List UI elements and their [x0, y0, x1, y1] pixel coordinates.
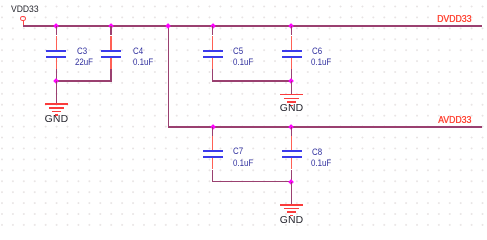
label GND bottom	[280, 216, 304, 226]
label C3	[77, 47, 87, 56]
wire GND stem bottom	[291, 182, 292, 205]
capacitor C5	[0, 0, 1, 1]
label GND left	[45, 115, 69, 125]
wire vertical trunk to AVDD33	[168, 25, 170, 127]
junction top rail at C3	[53, 23, 59, 29]
ground left	[0, 0, 1, 1]
wire AVDD33 rail	[168, 126, 482, 128]
junction AVDD rail at C8	[289, 124, 295, 130]
label GND middle	[280, 104, 304, 114]
value 0.1uF	[311, 58, 331, 67]
label VDD33	[11, 5, 39, 14]
label C6	[312, 47, 322, 56]
label C5	[233, 47, 243, 56]
junction C6 bottom	[289, 78, 295, 84]
power port VDD33	[20, 16, 26, 22]
wire C3-C4 bottom	[56, 80, 112, 82]
junction C3 bottom	[53, 78, 59, 84]
value 0.1uF	[311, 159, 331, 168]
wire C5-C6 bottom	[212, 80, 292, 82]
label C4	[133, 47, 143, 56]
wire top rail DVDD33	[23, 25, 482, 27]
capacitor C3	[0, 0, 1, 1]
value 22uF	[75, 58, 93, 67]
label C7	[233, 147, 243, 156]
ground middle	[0, 0, 1, 1]
wire GND stem middle	[291, 81, 292, 94]
junction top rail at C5	[210, 23, 216, 29]
value 0.1uF	[233, 58, 253, 67]
value 0.1uF	[233, 159, 253, 168]
capacitor C4	[0, 0, 1, 1]
capacitor C7	[0, 0, 1, 1]
capacitor C6	[0, 0, 1, 1]
ground bottom	[0, 0, 1, 1]
junction top rail at trunk	[165, 23, 171, 29]
net label AVDD33	[438, 116, 471, 126]
value 0.1uF	[133, 58, 153, 67]
net label DVDD33	[437, 15, 471, 25]
junction top rail at C4	[108, 23, 114, 29]
label C8	[312, 148, 322, 157]
wire GND stem left	[56, 81, 57, 104]
junction AVDD rail at C7	[210, 124, 216, 130]
capacitor C8	[0, 0, 1, 1]
junction top rail at C6	[289, 23, 295, 29]
wire C7-C8 bottom	[212, 181, 292, 183]
junction C8 bottom	[289, 179, 295, 185]
